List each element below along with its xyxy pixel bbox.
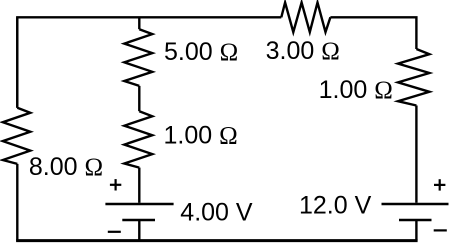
resistor 1.00 ohm (middle branch): [124, 111, 152, 167]
wire 12V battery to bottom wire: [415, 220, 417, 241]
resistor 1.00 ohm (right branch): [398, 49, 429, 106]
battery 4.00 V long plate (+): [105, 203, 173, 205]
svg-text:1.00 Ω: 1.00 Ω: [164, 122, 238, 150]
svg-text:5.00 Ω: 5.00 Ω: [164, 38, 238, 66]
battery 12.0 V short plate (-): [399, 219, 432, 221]
wire middle branch from top wire down: [138, 17, 140, 29]
resistor R 3.00 ohm (horizontal, top): [281, 3, 330, 33]
wire 1.00 ohm to 4V battery long plate: [138, 168, 140, 203]
minus sign of 12.0 V battery: [434, 229, 447, 231]
wire left: top of 8.00 ohm up: [16, 17, 18, 108]
svg-text:4.00 V: 4.00 V: [180, 198, 253, 226]
svg-text:1.00 Ω: 1.00 Ω: [319, 76, 393, 104]
plus sign of 4.00 V battery: [110, 184, 121, 186]
wire 3.00 ohm to top-right corner down to right resistor: [330, 17, 416, 49]
svg-text:3.00 Ω: 3.00 Ω: [266, 37, 340, 65]
wire top-left to 3.00 ohm resistor: [17, 17, 281, 108]
resistor 5.00 ohm (middle branch): [124, 29, 152, 86]
resistor 8.00 ohm (left branch): [3, 108, 31, 164]
plus sign of 12.0 V battery: [434, 184, 445, 186]
wire between 5.00 ohm and 1.00 ohm (middle): [138, 86, 140, 111]
wire 4V battery to bottom wire: [138, 220, 140, 241]
battery 4.00 V short plate (-): [122, 219, 155, 221]
minus sign of 4.00 V battery: [108, 231, 121, 233]
wire 8.00 ohm to bottom-left corner: [16, 164, 18, 241]
bottom wire: [16, 239, 418, 242]
svg-text:8.00 Ω: 8.00 Ω: [29, 153, 103, 181]
battery 12.0 V long plate (+): [382, 203, 449, 205]
wire right resistor to 12V battery long plate: [415, 106, 417, 203]
svg-text:12.0 V: 12.0 V: [299, 191, 372, 219]
